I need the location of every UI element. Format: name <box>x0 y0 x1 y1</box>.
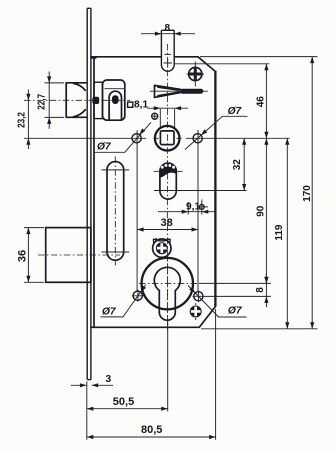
extension line for 46 <box>175 63 270 65</box>
leader bottom-right d7 <box>188 286 247 318</box>
follower center horizontal ticks <box>24 137 290 139</box>
svg-text:Ø7: Ø7 <box>102 306 117 317</box>
small pin hole <box>151 113 158 120</box>
dimension 38 <box>137 130 198 292</box>
leader top-right d7 <box>185 106 248 150</box>
svg-text:8,1: 8,1 <box>134 100 148 111</box>
phillips screw bottom <box>190 303 202 320</box>
leader mid-left d7 <box>94 122 152 152</box>
cylinder center lines <box>139 283 199 285</box>
latch center line <box>24 99 130 101</box>
cylinder cam slot (hatched capsule) <box>154 163 183 199</box>
svg-text:Ø7: Ø7 <box>97 142 112 153</box>
svg-text:Ø7: Ø7 <box>228 306 243 317</box>
black pin dot <box>92 97 99 104</box>
dimension 50,5 <box>87 321 168 440</box>
extension 32 bottom / capsule bottom tick <box>154 190 247 192</box>
euro profile keyhole <box>154 267 180 320</box>
latch housing <box>103 80 125 120</box>
extension line top (for 170) <box>200 56 318 58</box>
dimension 22,7 <box>37 72 64 129</box>
hole d7 bottom-left <box>132 290 144 302</box>
faceplate <box>87 8 91 379</box>
svg-text:32: 32 <box>232 159 243 171</box>
svg-text:23,2: 23,2 <box>16 112 27 128</box>
dimension 46 <box>256 64 269 139</box>
dimension 23,2 <box>16 90 30 150</box>
svg-text:170: 170 <box>302 185 313 202</box>
housing boss <box>109 91 121 120</box>
hole d7 bottom-right <box>192 290 204 302</box>
leader bottom-left d7 <box>101 285 147 318</box>
svg-text:80,5: 80,5 <box>141 424 162 436</box>
dimension 8 (cylinder to hole) <box>255 274 269 307</box>
latch spring funnel <box>150 85 208 97</box>
screw boss above cylinder <box>153 239 171 258</box>
square follower <box>155 126 180 151</box>
svg-text:50,5: 50,5 <box>113 396 134 408</box>
dimension 32 <box>232 138 246 190</box>
svg-text:90: 90 <box>256 205 267 217</box>
svg-text:22,7: 22,7 <box>37 94 48 110</box>
latch bolt head <box>66 83 86 118</box>
dimension 119 <box>274 138 290 328</box>
svg-text:8: 8 <box>164 23 170 34</box>
latch guide rect <box>94 82 103 118</box>
dimension 170 <box>302 57 314 329</box>
handle slot capsule (left) <box>102 157 130 266</box>
cylinder rosette <box>142 258 193 309</box>
main vertical center line <box>167 44 169 330</box>
svg-text:Ø7: Ø7 <box>228 106 243 117</box>
extension bottom (for 119/170) <box>201 328 318 330</box>
dimension 8 (top) <box>141 23 195 36</box>
extension 8 bottom <box>204 295 271 297</box>
svg-text:119: 119 <box>274 224 285 241</box>
latch pin at top <box>161 30 174 71</box>
dimension 36 <box>17 228 45 283</box>
dimension 9,1 <box>158 200 215 215</box>
top corner notch <box>91 57 96 59</box>
hole d7 right of follower <box>193 134 202 143</box>
hole d7 left of follower <box>132 134 141 143</box>
svg-text:36: 36 <box>17 250 29 262</box>
deadbolt <box>38 228 120 283</box>
phillips screw top <box>187 62 204 87</box>
dimension 8,1 (square follower) <box>148 106 189 128</box>
svg-text:38: 38 <box>160 217 172 229</box>
dimension 80,5 <box>87 309 216 440</box>
svg-text:46: 46 <box>256 96 267 108</box>
label square 8,1 <box>128 100 149 111</box>
svg-text:8: 8 <box>255 287 266 293</box>
dimension 3 <box>71 374 113 387</box>
svg-text:3: 3 <box>105 374 111 385</box>
dimension 90 <box>256 138 269 283</box>
lock case outline <box>91 57 215 328</box>
